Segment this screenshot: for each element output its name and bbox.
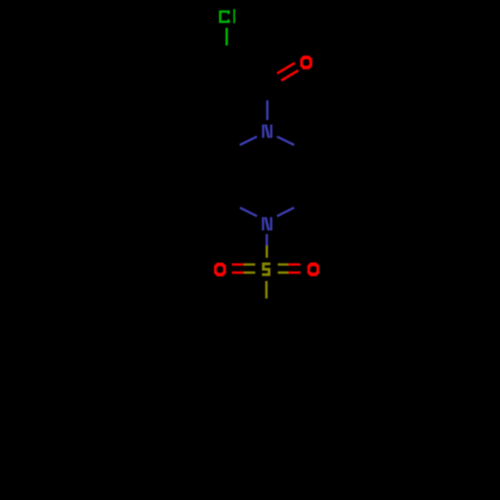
bond S=O left upper line, oxygen half (red) [232, 263, 244, 265]
bond S=O right lower line, sulfur half (olive) [278, 271, 288, 273]
atom label N1 piperazine top (blue) [262, 125, 272, 138]
bond ring C3'-N4 lower-left, nitrogen half (blue) [240, 208, 257, 217]
bond S=O right lower line, oxygen half (red) [288, 271, 300, 273]
atom label O sulfonyl left (red) [214, 263, 226, 277]
bond S=O right upper line, oxygen half (red) [288, 263, 300, 265]
bond C1=O carbonyl double bond upper line, oxygen half (red) [277, 63, 295, 74]
bond ring C5'-N4 lower-right, nitrogen half (blue) [277, 208, 294, 217]
bond S-C(aryl), sulfur half (olive) [265, 281, 267, 299]
atom label Cl: letter l (green) [233, 9, 235, 23]
bond C1-N1 amide, nitrogen half (blue) [266, 100, 268, 120]
bond N4-S, sulfur half (olive) [266, 246, 268, 258]
bond S=O left upper line, sulfur half (olive) [244, 263, 255, 265]
bond S=O right upper line, sulfur half (olive) [278, 263, 288, 265]
bond S=O left lower line, sulfur half (olive) [244, 271, 255, 273]
atom label N4 piperazine bottom (blue) [262, 217, 272, 230]
atom label O carbonyl (red) [300, 56, 312, 70]
atom label Cl: letter C (green) [219, 10, 230, 23]
bond N4-S, nitrogen half (blue) [266, 234, 268, 246]
bond C1=O carbonyl double bond lower line, oxygen half (red) [281, 70, 298, 80]
bond Cl-CH2 chlorine half (green) [225, 28, 227, 46]
bond ring C2'-N1 upper-left, nitrogen half (blue) [240, 137, 257, 145]
bond ring C6'-N1 upper-right, nitrogen half (blue) [277, 137, 294, 145]
atom label O sulfonyl right (red) [307, 263, 319, 277]
bond S=O left lower line, oxygen half (red) [232, 271, 244, 273]
atom label S sulfonyl (olive) [262, 263, 270, 277]
